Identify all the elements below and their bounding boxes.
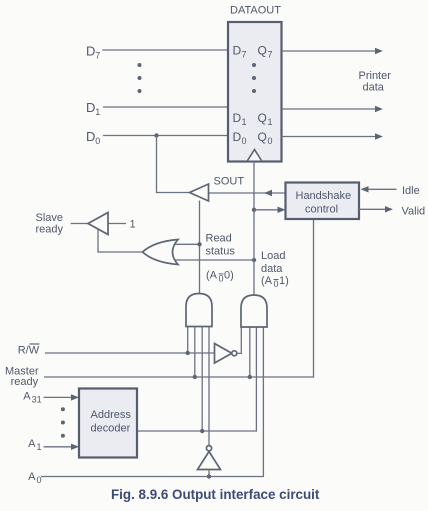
node A31 label [23, 391, 41, 405]
wire OR output to slave-ready buffer enable [98, 229, 143, 252]
svg-text:R/W: R/W [18, 345, 40, 357]
node Idle label [402, 185, 420, 197]
svg-text:Valid: Valid [402, 205, 426, 217]
svg-text:control: control [305, 204, 338, 216]
or-gate [143, 240, 179, 265]
and-gate right (load data) [241, 295, 267, 327]
svg-text:7: 7 [268, 50, 273, 60]
svg-text:31: 31 [32, 395, 42, 405]
junction decoder line to left AND [200, 429, 204, 433]
svg-text:0: 0 [37, 475, 42, 485]
svg-text:0): 0) [224, 270, 234, 282]
svg-text:Load: Load [261, 250, 285, 262]
svg-text:data: data [261, 263, 283, 275]
svg-text:Address: Address [91, 409, 132, 421]
svg-text:A: A [23, 391, 31, 403]
node Read status label [206, 233, 236, 258]
wire Idle input [361, 186, 397, 192]
clock wedge of register [248, 150, 262, 161]
svg-text:decoder: decoder [91, 423, 131, 435]
wire right AND input 4 from A0 line [41, 327, 263, 477]
svg-text:A: A [28, 438, 36, 450]
wire slave-ready buffer output [71, 223, 88, 225]
wire OR top input from read status node [172, 243, 200, 245]
svg-text:SOUT: SOUT [214, 176, 245, 188]
inverter A0 [198, 446, 221, 470]
wire right AND input 1 from R/W inverter [237, 327, 242, 353]
junction read status [197, 242, 201, 246]
svg-text:Q: Q [258, 44, 267, 58]
svg-text:Q: Q [258, 130, 267, 144]
wire A0 inverter input stub [208, 470, 210, 477]
node Printer data label [359, 70, 392, 94]
tri-state buffer slave-ready [88, 213, 108, 235]
wire A1 into decoder [44, 444, 79, 450]
svg-text:ready: ready [36, 224, 64, 236]
junction on D0 line [154, 133, 158, 137]
wire load data to handshake control [254, 207, 286, 213]
wire load data vertical to register clock [253, 162, 255, 296]
wire R/W line [45, 352, 215, 354]
svg-text:1: 1 [242, 117, 247, 127]
wire SOUT buffer output to D0 [157, 136, 190, 193]
node A0 label [28, 471, 41, 485]
node D1 label [86, 100, 100, 117]
junction R/W to left AND [186, 351, 190, 355]
svg-text:Handshake: Handshake [296, 190, 352, 202]
svg-text:Idle: Idle [402, 185, 420, 197]
svg-text:Slave: Slave [36, 212, 64, 224]
svg-text:Fig. 8.9.6 Output interface ci: Fig. 8.9.6 Output interface circuit [111, 487, 320, 502]
junction A0 line to inverter [207, 474, 211, 478]
wire D0 input line [103, 135, 228, 137]
register DATAOUT [228, 5, 282, 162]
svg-text:7: 7 [242, 50, 247, 60]
svg-text:(A: (A [261, 275, 273, 287]
svg-text:D: D [86, 129, 95, 144]
svg-text:1: 1 [37, 442, 42, 452]
svg-text:data: data [363, 82, 385, 94]
wire constant 1 input [108, 219, 136, 231]
and-gate left (read status) [186, 294, 212, 327]
svg-text:status: status [206, 246, 236, 258]
wire read-status to SOUT enable [199, 201, 201, 295]
node (A0bar 0) label [206, 270, 234, 284]
node (A0bar 1) label [261, 275, 289, 289]
wire left AND input 1 to R/W line [187, 327, 189, 354]
svg-text:D: D [233, 130, 242, 144]
svg-text:1: 1 [95, 107, 100, 117]
svg-text:ready: ready [11, 376, 39, 388]
inverter R/W [215, 344, 237, 364]
svg-text:0: 0 [242, 136, 247, 146]
wire D1 input line [103, 106, 228, 108]
svg-text:Read: Read [206, 233, 232, 245]
node R/W label [18, 344, 40, 357]
svg-text:Q: Q [258, 111, 267, 125]
junction load data to handshake [252, 208, 256, 212]
svg-text:D: D [86, 44, 95, 59]
node D0 label [86, 129, 100, 146]
wire Valid output [359, 206, 393, 212]
wire master ready line up to handshake [44, 219, 314, 377]
wire left AND input 3 to decoder output line [201, 327, 203, 432]
node A1 label [28, 438, 41, 452]
wire SOUT buffer input from handshake control [209, 192, 286, 194]
wire right AND input 3 from decoder output [137, 327, 256, 431]
svg-text:0: 0 [95, 136, 100, 146]
svg-text:7: 7 [95, 51, 100, 61]
wire Q0 output with arrow [282, 133, 384, 139]
ellipsis dots between A31 and A1 [61, 407, 65, 438]
wire OR bottom input from load data line [172, 259, 254, 261]
node Master ready label [5, 365, 39, 388]
svg-text:D: D [86, 100, 95, 115]
svg-text:0: 0 [268, 136, 273, 146]
svg-text:0: 0 [219, 274, 224, 284]
node D7 label [86, 44, 100, 61]
wire right AND input 2 to master ready line [249, 327, 251, 377]
node Slave ready label [36, 212, 64, 236]
svg-text:DATAOUT: DATAOUT [230, 5, 281, 17]
svg-text:Printer: Printer [359, 70, 392, 82]
junction on load data line at OR input [252, 258, 256, 262]
address decoder box [79, 389, 137, 458]
wire left AND input 4 from A0 inverter output [208, 327, 210, 446]
svg-text:1: 1 [268, 117, 273, 127]
junction master ready to right AND [248, 375, 252, 379]
svg-text:A: A [28, 471, 36, 483]
wire left AND input 2 to master ready line [194, 327, 196, 378]
wire D7 input line [102, 49, 228, 51]
wire Q7 output with arrow [282, 48, 384, 54]
wire A31 into decoder [44, 394, 79, 400]
caption [111, 487, 320, 502]
svg-text:1: 1 [130, 219, 136, 231]
svg-text:(A: (A [206, 270, 218, 282]
ellipsis dots left of register [138, 63, 142, 93]
arrow on SOUT input wire [264, 190, 272, 196]
svg-text:D: D [233, 111, 242, 125]
wire Q1 output with arrow [282, 106, 384, 112]
handshake control box [286, 183, 360, 220]
node Valid label [402, 205, 426, 217]
svg-text:D: D [233, 44, 242, 58]
svg-text:1): 1) [279, 275, 289, 287]
svg-text:0: 0 [274, 279, 279, 289]
tri-state buffer SOUT [190, 176, 245, 202]
junction master ready to left AND [193, 375, 197, 379]
node Load data label [261, 250, 285, 275]
